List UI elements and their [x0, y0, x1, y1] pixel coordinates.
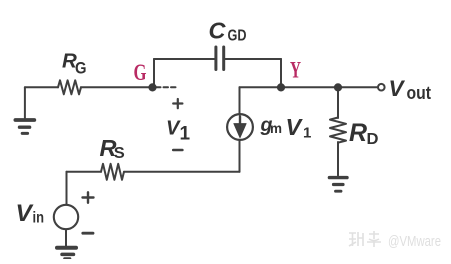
terminal V_out — [378, 84, 385, 91]
label V1 — [166, 117, 191, 144]
svg-text:GD: GD — [228, 27, 247, 44]
svg-text:@VMware: @VMware — [388, 233, 441, 250]
plus sign of V1 — [173, 99, 182, 108]
resistor R_D — [330, 118, 346, 143]
wire capacitor right lead — [225, 58, 281, 60]
svg-text:1: 1 — [180, 124, 191, 145]
ground (under V_in) — [57, 248, 76, 259]
wire current source bottom lead — [239, 141, 241, 172]
svg-text:G: G — [75, 58, 87, 77]
plus sign of V_in — [83, 192, 94, 203]
wire stub right of node G — [156, 86, 178, 88]
wire R_S to V_in — [67, 171, 102, 173]
minus sign of V1 — [173, 149, 182, 152]
label g_m V1 — [260, 114, 312, 142]
svg-text:S: S — [114, 145, 125, 162]
label R_S — [100, 135, 125, 162]
source V_in circle — [54, 205, 78, 229]
svg-text:R: R — [349, 119, 367, 147]
wire node G up to capacitor — [153, 59, 155, 87]
resistor R_G — [58, 80, 81, 94]
wire V_in to ground — [65, 230, 67, 246]
wire down to V_in source — [66, 172, 68, 205]
svg-text:G: G — [134, 60, 147, 86]
wire capacitor down to node Y — [280, 59, 282, 87]
label R_D — [349, 119, 379, 148]
capacitor C_GD plates — [216, 47, 224, 70]
wire capacitor left lead — [154, 58, 214, 60]
svg-text:C: C — [209, 18, 227, 44]
svg-text:Y: Y — [290, 58, 301, 84]
label V_in — [16, 200, 45, 227]
wire current source top lead — [239, 87, 241, 114]
resistor R_S — [101, 164, 124, 180]
svg-text:V: V — [286, 114, 304, 140]
node Y junction dot — [277, 83, 285, 91]
label C_GD — [209, 18, 247, 45]
svg-text:out: out — [407, 82, 432, 103]
svg-text:V: V — [389, 76, 406, 101]
wire node Y down to R_D — [337, 87, 339, 118]
current source g_m V1 — [227, 114, 253, 140]
wire ground to R_G — [25, 86, 58, 88]
junction dot at R_D — [334, 83, 342, 91]
watermark 知乎 glyphs — [349, 231, 381, 247]
wire R_D to ground — [337, 142, 339, 176]
svg-text:1: 1 — [303, 125, 311, 142]
wire node Y horizontal — [240, 86, 378, 88]
wire bottom horizontal to R_S — [124, 171, 240, 173]
svg-text:in: in — [33, 209, 45, 226]
ground (under R_D) — [329, 178, 347, 192]
label V_out — [389, 76, 432, 103]
node G junction dot — [148, 83, 156, 91]
svg-text:D: D — [367, 131, 379, 148]
ground (left, under R_G) — [15, 87, 34, 133]
wire R_G to node G — [81, 86, 153, 88]
minus sign of V_in — [83, 232, 93, 235]
svg-text:m: m — [270, 121, 282, 136]
label R_G — [62, 49, 87, 77]
